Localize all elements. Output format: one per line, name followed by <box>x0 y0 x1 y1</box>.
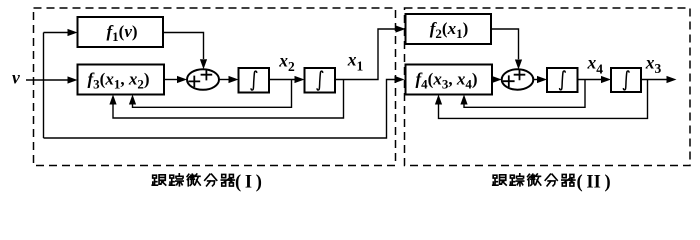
svg-text:v: v <box>12 68 20 88</box>
svg-text:( II ): ( II ) <box>577 173 611 193</box>
svg-text:f1(v): f1(v) <box>106 22 137 44</box>
svg-text:( I ): ( I ) <box>235 173 262 193</box>
